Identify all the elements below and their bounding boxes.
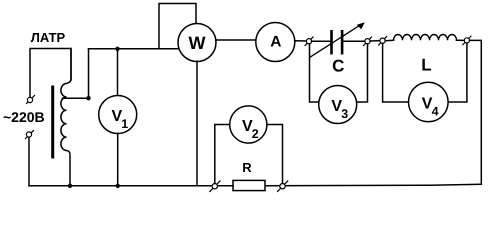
wattmeter U-W	[178, 24, 216, 62]
voltmeter V1	[99, 96, 137, 134]
wire X4 to X5	[370, 40, 380, 42]
wire tap of T1	[63, 49, 89, 98]
transformer core	[51, 86, 54, 159]
wire bottom bus left	[29, 185, 233, 187]
capacitor C1 plate left	[330, 30, 333, 55]
terminal X6 tick	[463, 36, 471, 45]
label V2	[242, 118, 259, 141]
terminal X5	[380, 38, 385, 43]
wire A to terminal	[295, 40, 307, 42]
wire capacitor to terminal	[343, 40, 365, 42]
wire V3 right lead	[356, 44, 367, 102]
terminal X7	[212, 184, 217, 189]
wire primary bottom	[29, 138, 70, 186]
svg-text:L: L	[421, 55, 431, 74]
node T1 bottom junction	[68, 184, 72, 188]
terminal X3	[306, 39, 311, 44]
terminal X8	[280, 184, 285, 189]
svg-text:W: W	[189, 33, 206, 53]
wattmeter current-coil bracket	[159, 4, 196, 49]
inductor L1	[394, 34, 457, 40]
terminal X7 tick	[210, 181, 220, 192]
label V4	[422, 96, 439, 119]
node V1 bottom junction	[116, 184, 120, 188]
svg-text:2: 2	[252, 127, 259, 141]
svg-text:4: 4	[432, 104, 439, 118]
wire V3 left lead	[310, 44, 320, 102]
wire X5 to inductor	[385, 39, 393, 41]
label V1	[112, 108, 129, 131]
svg-text:A: A	[270, 33, 281, 50]
terminal X5 tick	[379, 37, 387, 46]
wire V2 right lead	[267, 125, 283, 184]
wire terminal to capacitor	[312, 40, 331, 42]
wire right side down	[470, 40, 482, 184]
winding T1 (autotransformer coil)	[61, 49, 71, 186]
terminal X6	[464, 38, 469, 43]
voltmeter V3	[319, 86, 357, 124]
capacitor C1 plate right	[341, 30, 344, 55]
label V3	[331, 98, 348, 121]
node V1 top junction	[115, 47, 119, 51]
terminal X1 tick	[27, 96, 35, 104]
terminal X2 tick	[26, 131, 34, 139]
terminal X2	[26, 132, 31, 137]
svg-text:C: C	[332, 57, 344, 76]
wire inductor to terminal	[457, 39, 465, 41]
wire V4 left lead	[383, 43, 409, 102]
wire V2 left lead	[215, 125, 230, 184]
wire V4 right lead	[448, 43, 467, 102]
wire W bottom lead	[196, 62, 198, 186]
svg-text:1: 1	[121, 117, 128, 131]
svg-text:3: 3	[341, 107, 348, 121]
node tap junction	[86, 96, 90, 100]
ammeter A	[256, 23, 295, 62]
terminal X8 tick	[278, 181, 288, 192]
voltmeter V4	[409, 82, 449, 122]
terminal X4	[365, 39, 370, 44]
wire bottom bus right	[265, 184, 481, 186]
voltmeter V2	[230, 106, 267, 143]
wire primary top (box of LATR)	[30, 49, 71, 98]
wire V1 top lead	[117, 49, 119, 96]
wire tap to wattmeter	[89, 48, 180, 50]
wire V1 bottom lead	[117, 134, 119, 186]
terminal X1	[27, 97, 32, 102]
terminal X4 tick	[364, 37, 372, 46]
svg-text:~220В: ~220В	[3, 109, 45, 125]
terminal X3 tick	[305, 37, 313, 46]
resistor R	[233, 180, 265, 190]
svg-text:ЛАТР: ЛАТР	[31, 30, 66, 45]
svg-text:R: R	[242, 160, 252, 175]
capacitor variable arrow	[310, 22, 365, 57]
wire W to A	[216, 39, 256, 41]
